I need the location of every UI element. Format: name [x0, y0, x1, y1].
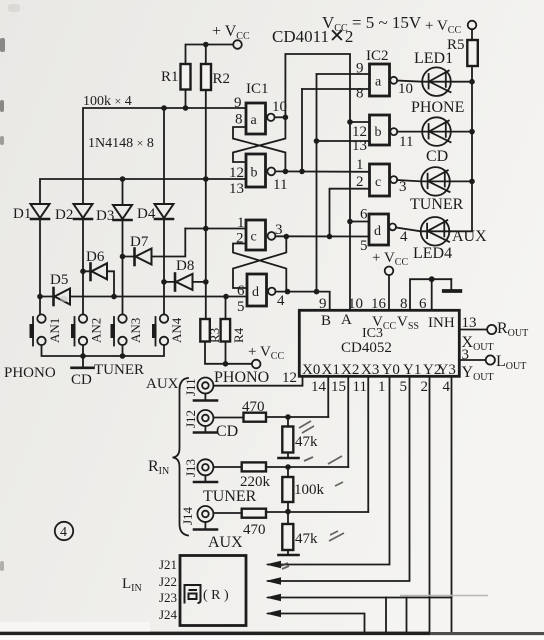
svg-text:J12: J12	[183, 410, 198, 428]
wire IC2d pin6	[350, 221, 369, 223]
svg-text:470: 470	[243, 522, 266, 538]
wire pin13 bus y=179	[40, 179, 246, 204]
diode D7	[130, 234, 152, 265]
wire D3 column	[122, 179, 124, 315]
wire IC2a pin9	[317, 73, 370, 75]
box same-as-R (L channel)	[180, 556, 246, 626]
glyph tong (same)	[185, 585, 201, 604]
wire IC2c pin2 riser	[330, 189, 370, 237]
arrowhead 2	[266, 577, 282, 584]
svg-text:4: 4	[443, 379, 451, 395]
svg-text:CD4052: CD4052	[341, 340, 392, 356]
svg-text:TUNER: TUNER	[94, 362, 144, 378]
op IC2 gate a	[370, 64, 398, 96]
svg-text:12: 12	[282, 370, 297, 386]
terminal Lout	[486, 355, 495, 364]
node pin12 on x350 riser	[347, 119, 353, 125]
+Vcc terminal (top right)	[425, 18, 476, 36]
+Vcc terminal for IC3	[372, 250, 408, 310]
svg-text:47k: 47k	[295, 531, 318, 547]
wire 470 to X1	[266, 416, 328, 418]
svg-text:CD: CD	[426, 148, 448, 165]
svg-text:c: c	[251, 230, 257, 245]
wire riser a8 x=302	[301, 89, 303, 171]
svg-text:b: b	[251, 166, 258, 181]
diode D6	[86, 249, 107, 280]
svg-text:4: 4	[60, 525, 67, 540]
wire IC1c output line to IC2d pin5	[276, 235, 370, 237]
svg-text:100k: 100k	[294, 482, 325, 498]
svg-text:5: 5	[400, 379, 408, 395]
svg-text:8: 8	[235, 112, 243, 128]
svg-text:9: 9	[319, 296, 327, 312]
circled 4 figure number	[55, 522, 73, 540]
svg-text:D2: D2	[55, 207, 73, 223]
wire D2 cathode down to AN2	[82, 219, 84, 315]
+Vcc terminal (top middle)	[212, 23, 250, 49]
svg-text:J13: J13	[183, 459, 198, 477]
wire IC1a pin8 stub and cross-couple X upper	[233, 127, 285, 171]
svg-text:5: 5	[237, 299, 245, 315]
node AN2 bottom	[80, 353, 86, 359]
wire Vss/INH tie	[410, 279, 451, 310]
wire switch common bottom line	[42, 345, 165, 356]
svg-text:B: B	[321, 313, 331, 329]
resistor R1	[181, 64, 191, 90]
node D5 left	[37, 294, 43, 300]
svg-text:CD: CD	[71, 372, 92, 388]
switch AN1	[30, 314, 63, 345]
node pin6 on x350 riser	[347, 219, 353, 225]
svg-text:9: 9	[234, 95, 242, 111]
wire R3/R4 bottom to +Vcc	[205, 342, 252, 364]
svg-text:d: d	[374, 224, 381, 239]
svg-text:PHONO: PHONO	[214, 369, 269, 386]
svg-text:8: 8	[400, 296, 408, 312]
svg-text:( R ): ( R )	[203, 588, 229, 603]
wire Vcc top rail	[186, 45, 234, 65]
resistor R3	[200, 319, 210, 342]
svg-text:J23: J23	[159, 590, 177, 605]
IC3 box CD4052	[299, 310, 459, 376]
wire IC1a feedback up-over to x350	[285, 54, 350, 310]
node D6 corner on y296	[111, 294, 117, 300]
svg-text:4: 4	[277, 293, 285, 309]
svg-text:X3: X3	[361, 362, 379, 378]
svg-text:IC1: IC1	[246, 81, 269, 97]
svg-text:470: 470	[242, 399, 265, 415]
jack J12	[183, 410, 217, 433]
svg-text:Y0: Y0	[382, 362, 400, 378]
wire IC1a output to node	[275, 116, 286, 118]
switch AN2	[71, 314, 104, 345]
svg-text:2: 2	[356, 174, 364, 190]
op IC2 gate b	[370, 115, 398, 145]
wire 470 to X3	[266, 511, 368, 513]
svg-text:AN3: AN3	[128, 318, 143, 343]
wire LED cathode bus	[451, 66, 473, 231]
node 100k top	[285, 464, 291, 470]
node LED1	[469, 79, 475, 85]
edge smudges	[0, 38, 5, 571]
svg-text:PHONO: PHONO	[4, 365, 56, 381]
svg-text:10: 10	[348, 296, 363, 312]
LED3	[397, 167, 472, 196]
node LED2	[469, 129, 475, 135]
node 47k top	[285, 414, 291, 420]
bottom scan band	[0, 632, 430, 636]
op IC1 gate c	[246, 220, 275, 250]
svg-text:LED1: LED1	[414, 50, 453, 67]
wire IC1c pin2 stub and X lower to d-out	[233, 244, 286, 292]
wire pin3 Lout	[459, 359, 485, 361]
svg-text:c: c	[375, 175, 381, 190]
svg-text:R2: R2	[213, 71, 231, 87]
wire IC2b pin12	[350, 121, 370, 123]
node y179 D3	[120, 176, 126, 182]
wire R1 bottom lead	[185, 90, 187, 109]
node D7 left on D3 column	[120, 254, 126, 260]
diode D5	[50, 272, 70, 305]
svg-text:TUNER: TUNER	[410, 196, 464, 213]
wire IC1d output line to IC3 pin9	[276, 292, 330, 311]
svg-text:D5: D5	[50, 272, 68, 288]
wire Y1 stub down and arrow line	[268, 376, 410, 581]
wire arrow line 4 with corner down	[268, 614, 365, 633]
wire D8 line	[164, 281, 206, 283]
wire D5 line y=296.5 to IC1d pin5	[40, 296, 247, 298]
arrowhead 4	[266, 610, 282, 617]
wire Y3 stub down to band	[451, 376, 453, 632]
svg-text:6: 6	[360, 207, 368, 223]
wire arrow line 3	[268, 597, 452, 599]
switch AN4	[152, 314, 184, 345]
svg-text:11: 11	[273, 177, 287, 193]
svg-text:10: 10	[398, 81, 413, 97]
svg-text:X2: X2	[341, 362, 359, 378]
jack J13	[183, 459, 217, 482]
node D8 right on R2 column	[203, 279, 209, 285]
LED2	[397, 117, 472, 146]
wire R2 column down to R3	[205, 90, 207, 319]
svg-text:2: 2	[421, 379, 429, 395]
svg-text:D6: D6	[86, 249, 105, 265]
wire hanger 1	[385, 598, 387, 633]
svg-text:J14: J14	[180, 506, 195, 525]
resistor 100k	[282, 477, 293, 502]
wire X1 stub	[327, 376, 329, 417]
svg-text:b: b	[375, 125, 382, 140]
resistor 470 (CD)	[244, 413, 267, 422]
wire D7 line to IC1c pin1 riser	[123, 229, 186, 257]
node IC1b out to IC2a.8	[299, 169, 305, 175]
wire IC1c pin1 line	[185, 228, 246, 230]
node IC1c out (X join)	[284, 234, 290, 240]
svg-text:11: 11	[353, 379, 367, 395]
svg-text:D1: D1	[13, 206, 31, 222]
svg-text:AN2: AN2	[89, 318, 104, 343]
jack J14	[180, 506, 217, 530]
resistor R2	[201, 64, 211, 90]
svg-text:D8: D8	[176, 258, 194, 274]
svg-text:16: 16	[371, 296, 387, 312]
svg-text:4: 4	[400, 229, 408, 245]
node R4 bottom	[223, 361, 229, 367]
svg-text:J24: J24	[159, 607, 178, 622]
svg-text:a: a	[251, 113, 258, 128]
svg-text:CD: CD	[216, 423, 238, 440]
wire IC2a pin8	[302, 88, 370, 90]
wire J12 to 470	[213, 417, 243, 419]
svg-text:D4: D4	[137, 206, 156, 222]
wire IC1a out down and cross to b.12	[233, 117, 285, 162]
svg-text:6: 6	[237, 283, 245, 299]
LED1	[397, 67, 472, 96]
node IC1d out	[285, 289, 291, 295]
node 100k bottom	[285, 509, 291, 515]
wire 100k bus y=108 to IC1a pin9	[83, 108, 246, 204]
node R2 top	[203, 42, 209, 48]
+Vcc terminal (R3/R4)	[248, 344, 284, 368]
svg-text:D3: D3	[96, 208, 114, 224]
svg-text:X1: X1	[322, 362, 340, 378]
svg-text:IC2: IC2	[366, 48, 389, 64]
wire J14 to 470	[213, 512, 241, 514]
svg-text:5: 5	[360, 238, 368, 254]
node IC1c out / IC2c.2 riser	[327, 234, 333, 240]
diode D4	[137, 204, 174, 222]
svg-text:d: d	[252, 285, 259, 300]
switch AN3	[111, 314, 144, 345]
wire X2 stub	[347, 376, 349, 467]
svg-text:Y3: Y3	[438, 362, 456, 378]
svg-text:11: 11	[399, 134, 413, 150]
svg-text:TUNER: TUNER	[203, 488, 257, 505]
svg-text:J22: J22	[159, 574, 177, 589]
faint scan line	[400, 595, 488, 597]
node pin1/R2col	[203, 226, 209, 232]
op IC2 gate d	[369, 214, 396, 245]
svg-text:J21: J21	[159, 557, 177, 572]
resistor 47k (2)	[282, 524, 293, 550]
node R1 bottom	[183, 105, 189, 111]
svg-text:14: 14	[311, 379, 327, 395]
resistor 220k	[242, 462, 266, 471]
svg-text:AN4: AN4	[169, 317, 184, 343]
svg-text:AUX: AUX	[146, 376, 179, 392]
brace Rin	[173, 378, 189, 536]
svg-text:INH: INH	[428, 315, 455, 331]
wire X3 stub	[367, 376, 369, 512]
wire hanger 2	[406, 598, 408, 633]
op IC1 gate a	[246, 103, 275, 134]
wire IC1b output line to IC2c pin1	[275, 170, 369, 172]
svg-text:LED4: LED4	[413, 245, 452, 262]
wire D4 column down to AN4	[163, 108, 165, 315]
wire D6 line and corner down	[83, 271, 114, 296]
arrowhead 3	[266, 594, 282, 601]
node y179 R2	[203, 176, 209, 182]
diode D3	[96, 205, 132, 224]
svg-text:6: 6	[419, 296, 427, 312]
node INH	[429, 276, 435, 282]
wire D1 cathode down to AN1	[39, 219, 41, 315]
wire IC2b pin13	[317, 140, 370, 142]
svg-text:AN1: AN1	[47, 318, 62, 343]
svg-text:PHONE: PHONE	[411, 99, 464, 116]
wire IC1c out down and cross to d.6	[233, 237, 286, 289]
wire R2 top lead	[205, 45, 207, 65]
wire X0 stub to J11 line	[214, 376, 303, 385]
svg-text:Y1: Y1	[403, 362, 421, 378]
svg-text:1N4148 × 8: 1N4148 × 8	[88, 136, 154, 151]
svg-text:47k: 47k	[295, 434, 318, 450]
pen marks	[281, 421, 344, 569]
svg-text:15: 15	[331, 379, 346, 395]
svg-text:AUX: AUX	[452, 228, 487, 245]
svg-text:R1: R1	[161, 69, 179, 85]
wire Y2 stub down to band	[429, 376, 431, 632]
svg-text:R4: R4	[231, 327, 246, 343]
ground (below CD)	[82, 356, 84, 367]
wire 220k to X2	[266, 466, 348, 468]
svg-text:AUX: AUX	[208, 534, 243, 551]
node R4 top	[223, 294, 229, 300]
resistor 470 (AUX)	[242, 509, 266, 518]
op IC2 gate c	[370, 164, 398, 196]
node AN3 bottom	[120, 353, 126, 359]
node LED3	[469, 179, 475, 185]
op IC1 gate b	[246, 154, 275, 187]
node IC1b out (X join)	[283, 169, 289, 175]
svg-text:1: 1	[378, 379, 386, 395]
diode D8	[175, 258, 194, 291]
svg-text:X0: X0	[302, 362, 320, 378]
jack J11	[183, 378, 217, 401]
svg-text:100k × 4: 100k × 4	[83, 94, 132, 109]
svg-text:12: 12	[229, 165, 244, 181]
svg-text:1: 1	[356, 157, 364, 173]
svg-text:A: A	[341, 312, 352, 328]
node D4 top	[161, 105, 167, 111]
svg-text:8: 8	[356, 86, 364, 102]
LED4	[396, 217, 451, 246]
wire riser a9/b13/d-out x=316.5	[316, 74, 318, 292]
ground (IC3)	[450, 279, 452, 289]
arrowhead 1	[266, 561, 282, 568]
node D6 left on D2 column	[80, 269, 86, 275]
node IC1a out	[283, 115, 289, 121]
svg-text:D7: D7	[130, 234, 149, 250]
svg-text:a: a	[375, 75, 382, 90]
wire Y0 stub down and arrow line	[268, 376, 390, 564]
svg-text:J11: J11	[183, 378, 198, 396]
svg-text:13: 13	[229, 181, 244, 197]
resistor 47k (1)	[282, 427, 293, 453]
diode D1	[13, 204, 50, 222]
wire pin13 Rout	[459, 329, 487, 331]
op IC1 gate d	[247, 274, 275, 306]
resistor R4	[221, 319, 231, 342]
node IC1d out / IC2 a9-b13 riser	[314, 289, 320, 295]
node b13 junction	[314, 138, 320, 144]
node D8 left on D4 column	[161, 279, 167, 285]
diode D2	[55, 204, 93, 223]
wire R4 top lead	[225, 297, 227, 320]
terminal Rout	[487, 325, 496, 334]
svg-text:3: 3	[399, 179, 407, 195]
wire J13 to 220k	[213, 466, 241, 468]
